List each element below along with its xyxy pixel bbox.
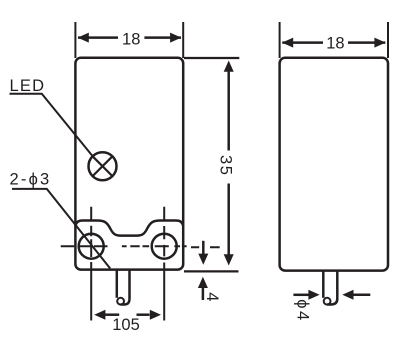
18 dim arrowhead right (right view) — [374, 38, 385, 48]
left tab curl — [117, 298, 124, 305]
18 dimension line right segment (left view) — [144, 36, 181, 39]
svg-text:18: 18 — [326, 35, 344, 53]
35 dimension line upper segment — [227, 70, 230, 151]
left view terminal tab — [116, 270, 119, 298]
10.5 dimension line left segment — [105, 313, 119, 316]
18 dimension line left segment (left view) — [78, 36, 118, 39]
10.5 dim arrowhead right — [150, 310, 161, 320]
horizontal centerline through holes — [61, 245, 187, 247]
centerline extension dashes for 4 dim — [191, 246, 220, 248]
top edge extension line for 35 dim — [184, 57, 239, 59]
4 dim arrowhead pointing down — [198, 254, 208, 265]
vertical centerline left hole — [90, 207, 92, 257]
left view mounting bracket profile — [75, 221, 183, 236]
LED indicator circle — [89, 152, 117, 180]
right view body outline — [280, 58, 388, 271]
18 dimension line right segment (right view) — [348, 41, 385, 44]
10.5 dimension line right segment — [137, 313, 150, 316]
LED X mark — [93, 156, 113, 176]
phi4 dim arrow left pointing right — [293, 294, 309, 297]
4 dim line above (tail through centerline) — [202, 241, 205, 255]
mounting hole left — [79, 234, 104, 259]
10.5 dim arrowhead left — [94, 310, 105, 320]
svg-text:4: 4 — [203, 292, 221, 301]
2-phi3 leader line — [12, 189, 110, 269]
bottom edge extension line for 35/4 dims — [184, 270, 239, 272]
4 dim arrowhead pointing up (below baseline) — [198, 277, 208, 288]
left hole extension line for 10.5 dim — [90, 262, 92, 321]
phi4 dim arrow right pointing left — [353, 294, 370, 297]
18 dim extension line right (left view) — [182, 22, 184, 58]
svg-text:LED: LED — [10, 77, 46, 95]
svg-text:105: 105 — [112, 316, 140, 334]
18 dim arrowhead left (left view) — [78, 33, 89, 43]
LED leader line — [10, 94, 93, 156]
35 dim arrowhead bottom — [224, 254, 234, 265]
right view terminal tab — [322, 271, 325, 298]
18 dim extension line right (right view) — [387, 22, 389, 58]
right tab curl — [324, 298, 331, 305]
35 dimension line lower segment — [227, 184, 230, 256]
18 dim extension line left (left view) — [74, 22, 76, 58]
left tab bottom and right side — [121, 270, 130, 305]
4 dim tail below — [202, 287, 205, 300]
mounting hole right — [152, 234, 177, 259]
vertical centerline right hole — [163, 207, 165, 257]
18 dim extension line left (right view) — [279, 22, 281, 58]
svg-text:2-ϕ3: 2-ϕ3 — [10, 170, 52, 188]
svg-text:35: 35 — [216, 155, 234, 176]
right hole extension line for 10.5 dim — [163, 263, 165, 321]
35 dim arrowhead top — [224, 61, 234, 72]
18 dimension line left segment (right view) — [282, 41, 323, 44]
right tab bottom and right side — [327, 271, 337, 304]
left view body outline — [75, 58, 183, 270]
18 dim arrowhead right (left view) — [170, 33, 181, 43]
18 dim arrowhead left (right view) — [282, 38, 293, 48]
svg-text:ϕ4: ϕ4 — [294, 299, 312, 322]
svg-text:18: 18 — [122, 30, 140, 48]
